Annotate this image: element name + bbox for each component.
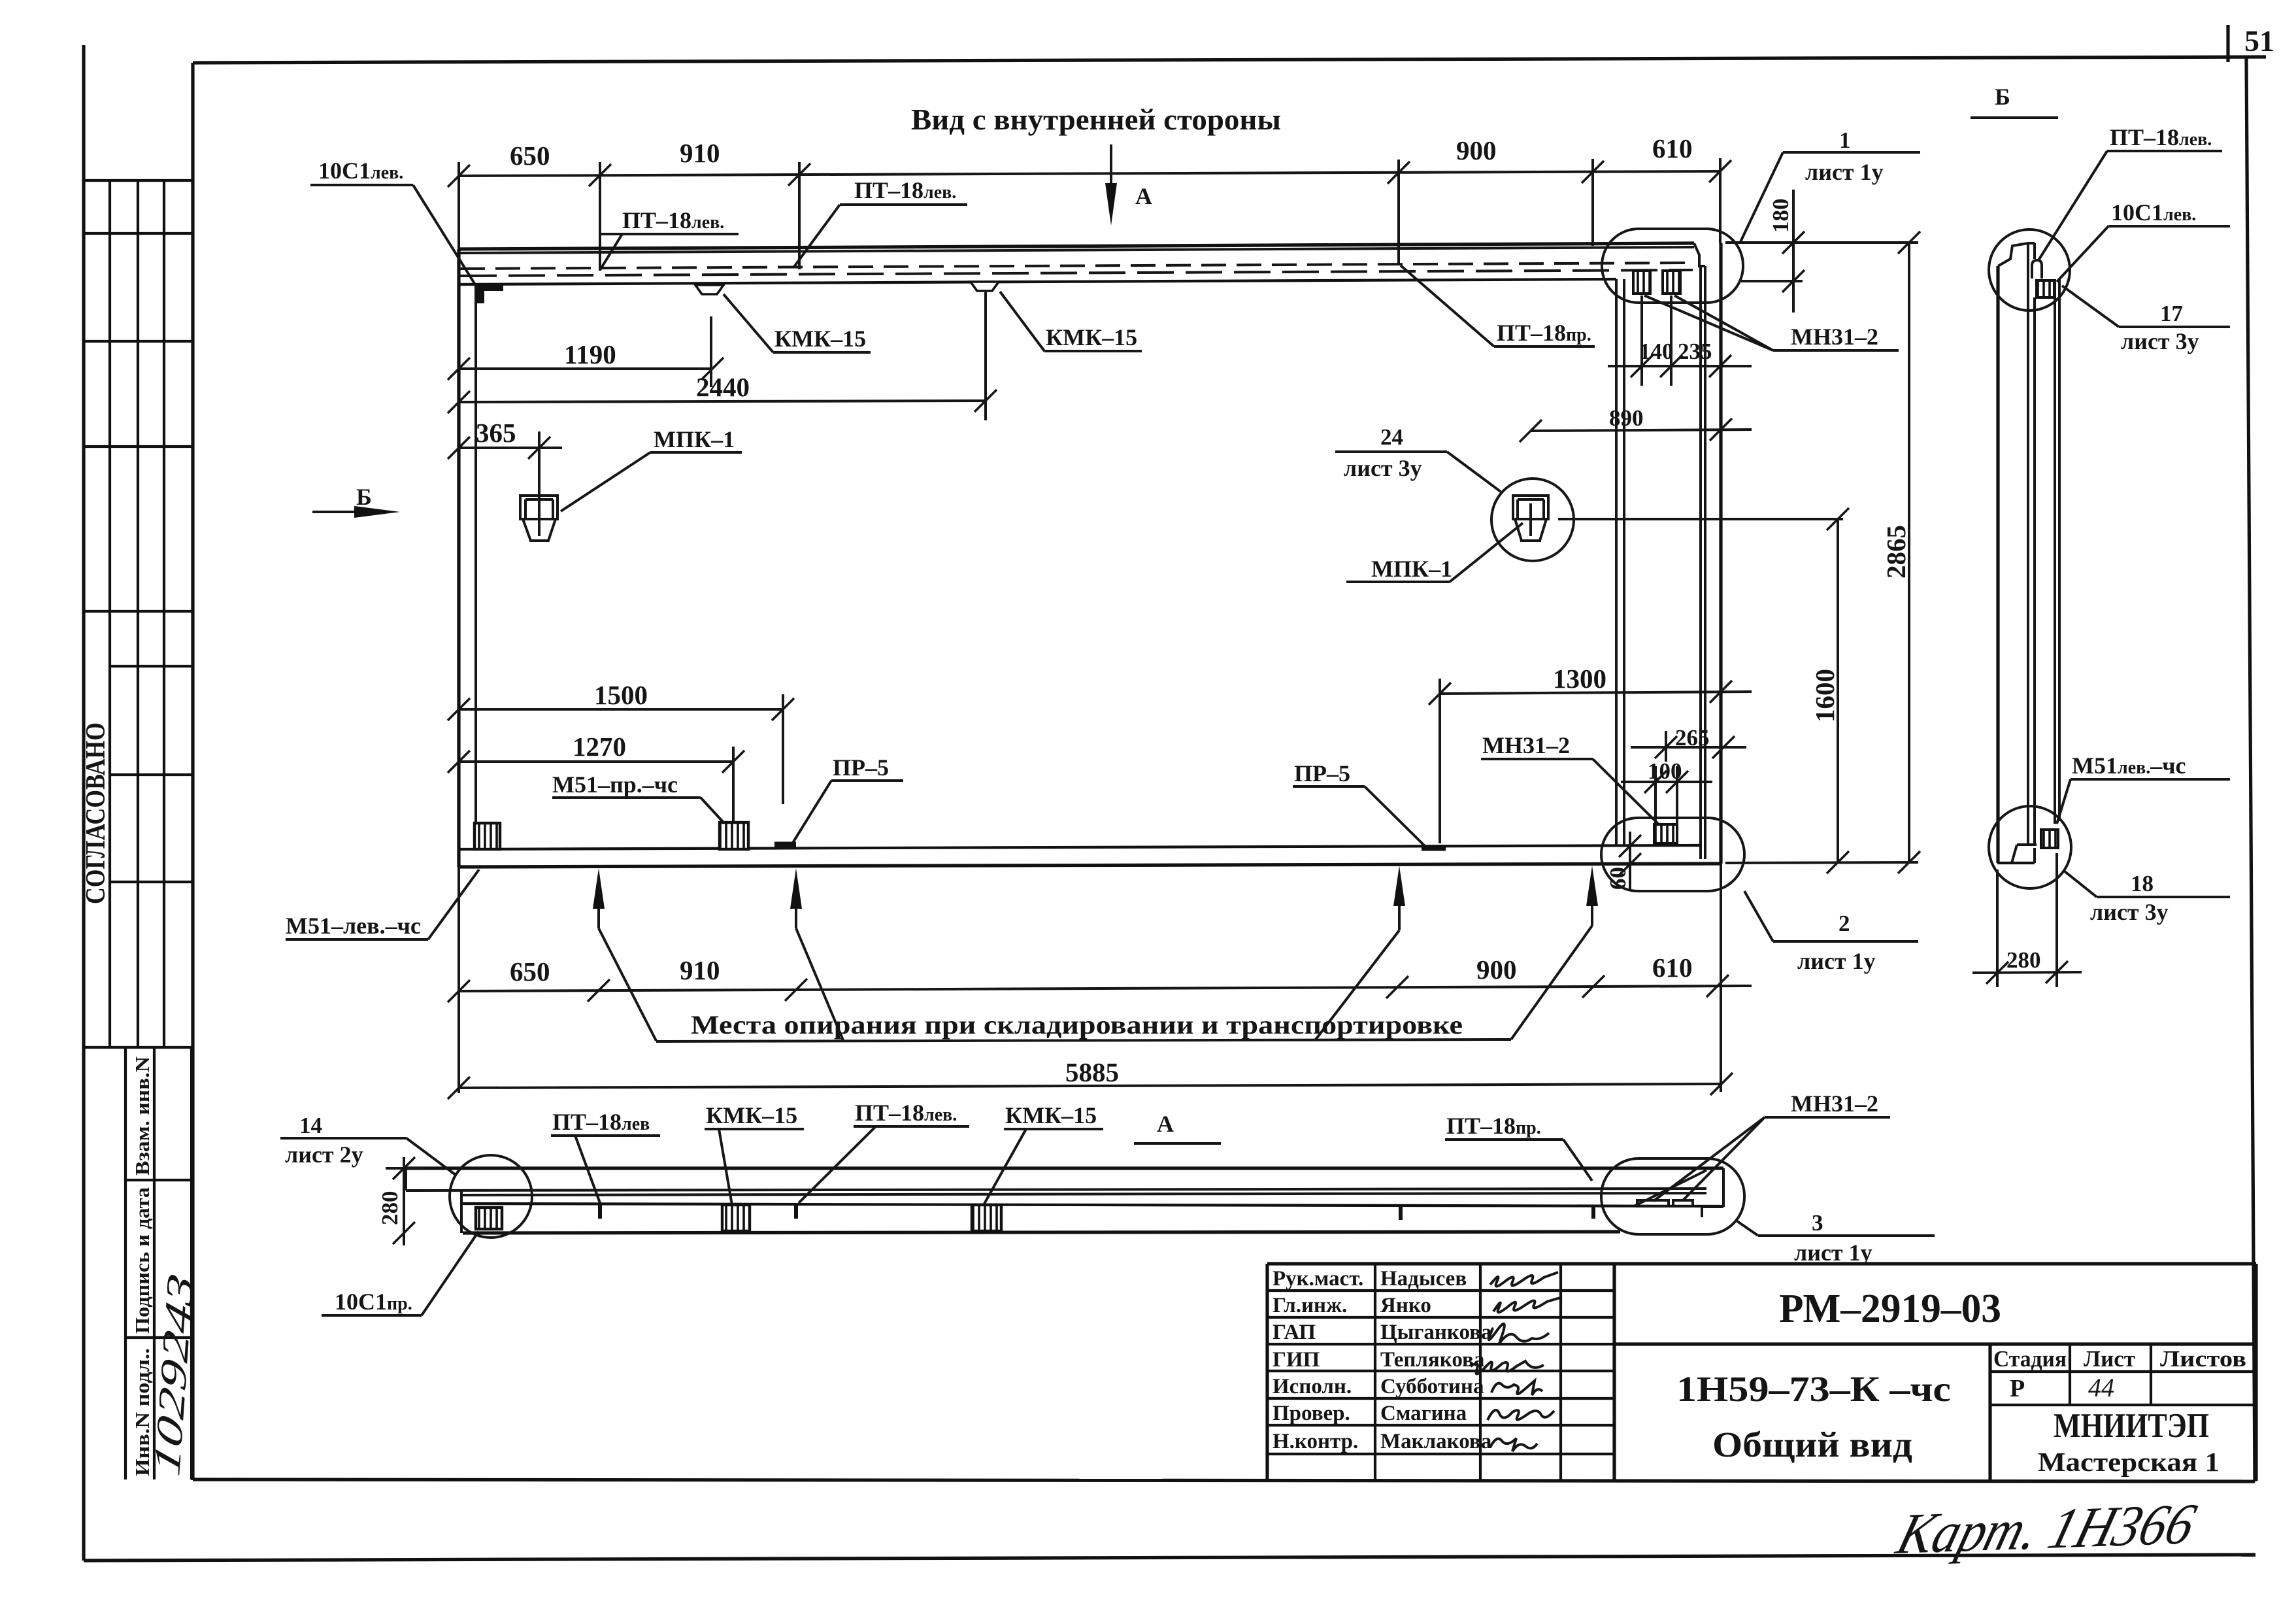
panel left outer edge: [457, 249, 460, 867]
svg-text:Общий вид: Общий вид: [1712, 1425, 1912, 1464]
hidden dashed line 1: [460, 263, 1693, 269]
anchor plates seen edge-on at right end: [1637, 1200, 1669, 1206]
dim 280 (section bottom): [1996, 870, 1999, 987]
svg-text:3: 3: [1812, 1210, 1823, 1236]
dim 1270: [459, 760, 733, 763]
dim 1190: [459, 367, 712, 370]
page bottom edge line: [84, 1555, 2255, 1561]
svg-text:280: 280: [377, 1191, 403, 1226]
10С1пр hatch block (left end): [476, 1208, 502, 1229]
signature table row labels: [1273, 1267, 1492, 1453]
svg-text:МПК–1: МПК–1: [654, 426, 735, 452]
svg-text:Б: Б: [1995, 84, 2010, 110]
svg-text:1500: 1500: [594, 680, 648, 710]
svg-text:Карт. 1Н366: Карт. 1Н366: [1889, 1491, 2203, 1566]
svg-text:Мастерская 1: Мастерская 1: [2038, 1447, 2220, 1477]
КМК-15 bracket 2 on top face: [971, 282, 999, 291]
svg-text:МНИИТЭП: МНИИТЭП: [2054, 1407, 2209, 1445]
dim 140 / 235 below corner detail: [1608, 365, 1752, 367]
КМК-15 hatch block (middle 1): [722, 1205, 750, 1231]
svg-text:900: 900: [1456, 135, 1497, 165]
top right page number tick: [2226, 25, 2229, 62]
svg-text:КМК–15: КМК–15: [1005, 1102, 1097, 1128]
svg-text:51: 51: [2244, 24, 2274, 58]
svg-text:МПК–1: МПК–1: [1371, 556, 1452, 582]
svg-text:Теплякова: Теплякова: [1380, 1348, 1484, 1372]
panel right outer edge: [1719, 243, 1722, 864]
svg-text:Р: Р: [2010, 1375, 2025, 1402]
svg-text:Провер.: Провер.: [1273, 1402, 1350, 1425]
svg-text:2440: 2440: [696, 372, 750, 402]
dim 2440: [459, 401, 986, 402]
dim 365: [459, 447, 562, 449]
svg-text:Маклакова: Маклакова: [1380, 1430, 1491, 1453]
extension of panel edges down to 5885 dim: [458, 867, 460, 1093]
svg-text:1300: 1300: [1553, 664, 1606, 694]
svg-text:180: 180: [1768, 199, 1793, 233]
М51 hatch anchor (bottom, right of pair): [720, 822, 748, 849]
svg-text:1600: 1600: [1810, 669, 1840, 722]
svg-text:КМК–15: КМК–15: [1046, 324, 1137, 350]
svg-text:А: А: [1135, 183, 1152, 209]
svg-text:Лист: Лист: [2084, 1346, 2135, 1372]
svg-text:Субботина: Субботина: [1380, 1375, 1484, 1398]
svg-text:Смагина: Смагина: [1380, 1402, 1467, 1425]
top detail circle (17 лист 3у): [1989, 229, 2070, 311]
svg-text:Надысев: Надысев: [1380, 1267, 1467, 1291]
dim 100: [1621, 781, 1712, 783]
svg-text:Н.контр.: Н.контр.: [1273, 1430, 1358, 1453]
svg-text:265: 265: [1675, 725, 1710, 751]
strip top edge: [406, 1166, 1723, 1170]
svg-text:М51–пр.–чс: М51–пр.–чс: [552, 771, 678, 798]
svg-text:лист 2у: лист 2у: [285, 1141, 363, 1168]
svg-text:ГИП: ГИП: [1273, 1348, 1320, 1372]
МН31-2 hatch anchor (bottom right): [1654, 824, 1677, 843]
М51лев hatch block (section bottom): [2041, 830, 2058, 848]
svg-text:44: 44: [2088, 1373, 2114, 1402]
svg-text:365: 365: [476, 418, 516, 448]
pointer tick right: [1591, 1206, 1595, 1219]
svg-text:650: 650: [510, 141, 550, 171]
top right corner notch: [1694, 243, 1705, 266]
svg-text:Взам. инв.N: Взам. инв.N: [131, 1056, 154, 1175]
section bottom foot: [2017, 843, 2037, 846]
dim 280 (left, vertical): [403, 1157, 405, 1245]
svg-text:Вид с внутренней стороны: Вид с внутренней стороны: [911, 103, 1281, 136]
panel left inner edge: [474, 285, 477, 849]
extension line at 180 bottom: [1741, 280, 1803, 282]
svg-text:лист 1у: лист 1у: [1805, 159, 1884, 185]
МН31-2 hatch anchor 1 (top right corner): [1633, 271, 1650, 294]
dim 1300: [1440, 692, 1752, 694]
right rib inner double line: [1615, 279, 1618, 846]
svg-text:140: 140: [1639, 339, 1674, 364]
strip bottom edge: [463, 1232, 1620, 1233]
svg-text:МН31–2: МН31–2: [1791, 1090, 1878, 1117]
dim 890: [1531, 430, 1752, 431]
svg-text:Б: Б: [356, 484, 372, 510]
dim 5885: [459, 1084, 1722, 1088]
dim 60 (vertical, rotated): [1629, 832, 1631, 889]
svg-text:ПР–5: ПР–5: [833, 754, 889, 781]
svg-text:лист 3у: лист 3у: [2090, 899, 2169, 925]
extension line at panel top to 2865 dim: [1725, 241, 1918, 244]
panel bottom inner face line: [459, 845, 1699, 849]
panel top edge outer line: [459, 243, 1694, 249]
svg-text:Исполн.: Исполн.: [1273, 1375, 1352, 1398]
svg-text:МН31–2: МН31–2: [1791, 324, 1878, 350]
svg-text:24: 24: [1380, 424, 1403, 450]
svg-text:Листов: Листов: [2160, 1346, 2246, 1372]
black corner anchor at top-left: [476, 285, 503, 303]
strip right end vertical: [1722, 1168, 1725, 1207]
svg-text:М51–лев.–чс: М51–лев.–чс: [286, 913, 421, 939]
bottom dim row (650 910 ... 900 610): [459, 986, 1752, 991]
strip right end step: [1702, 1206, 1723, 1208]
hook pocket (ПТ-18лев): [2032, 260, 2042, 279]
section right edge double: [2054, 279, 2056, 824]
vertical link from 365 tick to МПК-1: [538, 431, 541, 503]
svg-text:Подпись и дата: Подпись и дата: [131, 1187, 154, 1334]
strip inner bottom line: [461, 1204, 1723, 1206]
svg-text:1270: 1270: [573, 732, 626, 762]
svg-text:Цыганкова: Цыганкова: [1380, 1321, 1492, 1344]
pointer tick ПТ-18лев second: [794, 1204, 798, 1219]
svg-text:610: 610: [1652, 953, 1693, 983]
svg-text:910: 910: [680, 955, 720, 985]
svg-text:14: 14: [299, 1113, 322, 1138]
extension line МПК level to 1600 dim: [1558, 518, 1843, 520]
svg-text:КМК–15: КМК–15: [774, 326, 866, 352]
svg-text:Места опирания при складирован: Места опирания при складировании и транс…: [691, 1010, 1463, 1039]
dim 1600 (vertical): [1837, 519, 1839, 862]
svg-text:610: 610: [1652, 133, 1693, 163]
svg-text:ГАП: ГАП: [1273, 1321, 1316, 1344]
МПК-1 anchor symbol (left): [520, 496, 557, 541]
svg-text:280: 280: [2006, 947, 2041, 973]
svg-text:235: 235: [1678, 339, 1712, 364]
КМК-15 hatch block (middle 2): [972, 1205, 1001, 1231]
svg-text:1: 1: [1839, 127, 1851, 153]
svg-text:ПР–5: ПР–5: [1294, 760, 1350, 786]
svg-text:МН31–2: МН31–2: [1482, 732, 1570, 758]
detail callout stadium (bottom right corner, 2 лист 1у): [1601, 818, 1744, 891]
left margin lower table grid: [125, 1047, 191, 1479]
leaders from arrows to note underline: [599, 928, 656, 1041]
pointer tick ПТ-18пр: [1399, 1206, 1403, 1220]
extension lines for top dims: [458, 162, 460, 250]
svg-text:лист 1у: лист 1у: [1794, 1240, 1872, 1266]
МПК-1 anchor symbol (right): [1513, 496, 1548, 541]
section arrow А (top): [1110, 144, 1112, 186]
section top zigzag profile: [1998, 243, 2035, 266]
sheet frame right border: [2246, 57, 2255, 1481]
МПК-1 detail circle (right): [1491, 479, 1574, 561]
dim 2865 (vertical): [1908, 243, 1910, 862]
svg-text:1190: 1190: [564, 339, 616, 369]
svg-text:2865: 2865: [1881, 525, 1911, 579]
КМК-15 bracket 1 on top face: [695, 285, 724, 294]
strip left end vertical: [405, 1168, 407, 1191]
strip line 3: [461, 1193, 1706, 1195]
svg-text:890: 890: [1609, 405, 1644, 431]
dim 180 (vertical): [1792, 190, 1795, 313]
svg-text:лист 1у: лист 1у: [1797, 948, 1876, 974]
panel bottom outer edge: [459, 864, 1722, 867]
svg-text:РМ–2919–03: РМ–2919–03: [1779, 1287, 2001, 1331]
svg-text:650: 650: [510, 956, 550, 987]
svg-text:КМК–15: КМК–15: [706, 1102, 797, 1128]
bottom detail circle (18 лист 3у): [1989, 806, 2071, 888]
panel top edge second line: [459, 247, 1694, 253]
signature squiggles: [1471, 1272, 1560, 1451]
svg-text:1Н59–73–К –чс: 1Н59–73–К –чс: [1676, 1369, 1951, 1409]
svg-text:17: 17: [2160, 301, 2183, 326]
svg-text:910: 910: [680, 138, 720, 168]
sheet frame top border: [193, 57, 2266, 63]
sheet frame left border: [191, 63, 194, 1480]
strip end inner diagonals: [1634, 1170, 1706, 1206]
svg-text:Гл.инж.: Гл.инж.: [1273, 1294, 1347, 1317]
svg-text:5885: 5885: [1065, 1057, 1119, 1087]
svg-text:18: 18: [2131, 871, 2154, 896]
svg-text:А: А: [1157, 1111, 1174, 1137]
section inner vertical 2: [2033, 243, 2036, 259]
extension at bottom edge to vertical dims: [1725, 862, 1918, 863]
right leaf double line: [1699, 266, 1702, 859]
ПР-5 pad 1: [774, 842, 796, 848]
section left outer edge: [1996, 266, 1999, 863]
dim 1500: [459, 708, 783, 711]
pointer tick ПТ-18лев: [598, 1204, 602, 1219]
svg-text:2: 2: [1838, 911, 1850, 936]
section inner vertical 1: [2027, 243, 2029, 845]
ПР-5 pad 2: [1422, 845, 1446, 851]
strip line 2: [406, 1189, 1706, 1191]
top dimension line: [459, 171, 1720, 176]
left margin upper table grid: [84, 180, 193, 1047]
hidden dashed line 2: [460, 270, 1693, 276]
support arrows (места опирания): [593, 868, 605, 909]
svg-text:Янко: Янко: [1380, 1294, 1431, 1317]
10С1лев hatch block: [2037, 280, 2054, 297]
sheet frame bottom border: [193, 1479, 2255, 1481]
svg-text:Рук.маст.: Рук.маст.: [1273, 1267, 1363, 1291]
dim 265: [1631, 746, 1746, 749]
page left border line: [82, 45, 85, 1561]
svg-text:СОГЛАСОВАНО: СОГЛАСОВАНО: [81, 722, 111, 904]
strip left step vertical: [460, 1191, 463, 1233]
М51 hatch anchor (bottom left): [474, 823, 500, 849]
МН31-2 hatch anchor 2: [1663, 271, 1680, 294]
svg-text:лист 3у: лист 3у: [2121, 328, 2199, 354]
svg-text:900: 900: [1476, 955, 1517, 985]
detail stadium right end (3 лист 1у): [1601, 1158, 1744, 1234]
detail callout stadium (top right corner, 1 лист 1у): [1602, 229, 1743, 303]
svg-text:лист 3у: лист 3у: [1344, 455, 1422, 481]
detail circle left end (14 лист 2у): [450, 1155, 532, 1238]
panel face top line: [459, 279, 1616, 284]
svg-text:Стадия: Стадия: [1993, 1346, 2067, 1372]
